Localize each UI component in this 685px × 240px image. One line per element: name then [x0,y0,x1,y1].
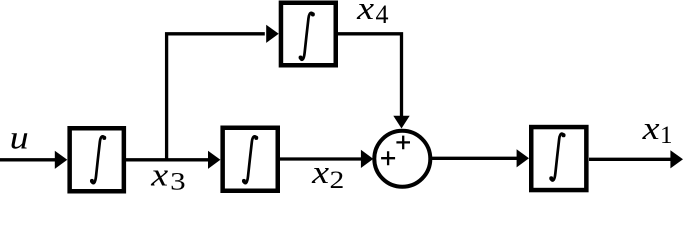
integrator block B1 [70,128,124,191]
svg-text:x: x [356,0,374,27]
svg-text:3: 3 [170,169,186,195]
wire: summer to B3 [432,157,517,160]
arrowhead into summer from left [361,150,373,168]
output arrowhead [670,150,683,168]
arrowhead into integrator B1 [55,151,68,169]
wire: B2 to summer [280,157,361,160]
integrator block B2 [223,128,278,191]
integral symbol in B2 [242,136,258,183]
wire: B1 to B2 [126,158,208,161]
svg-text:u: u [10,121,29,157]
arrowhead into integrator B4 [266,25,279,43]
svg-text:x: x [150,158,168,194]
svg-text:2: 2 [330,167,345,194]
svg-text:4: 4 [376,0,389,29]
plus sign top input [396,136,410,150]
wire: output x1 [589,158,672,161]
integral symbol in B3 [549,133,565,180]
integral symbol in B1 [90,136,106,183]
wire: input u line [0,158,56,161]
svg-text:x: x [311,155,329,191]
integral symbol in B4 [299,12,315,59]
arrowhead into integrator B2 [208,151,220,169]
summing junction S1 [374,131,430,187]
arrowhead down into summer [393,116,409,129]
integrator block B4 (top) [281,3,336,66]
svg-text:x: x [642,111,660,147]
arrowhead into integrator B3 [517,149,529,167]
plus sign left input [381,151,395,165]
wire: branch from x3 up and right to B4 [167,34,265,161]
wire: B4 output right then down to summer [338,34,402,116]
svg-text:1: 1 [660,122,673,149]
integrator block B3 [531,127,586,190]
